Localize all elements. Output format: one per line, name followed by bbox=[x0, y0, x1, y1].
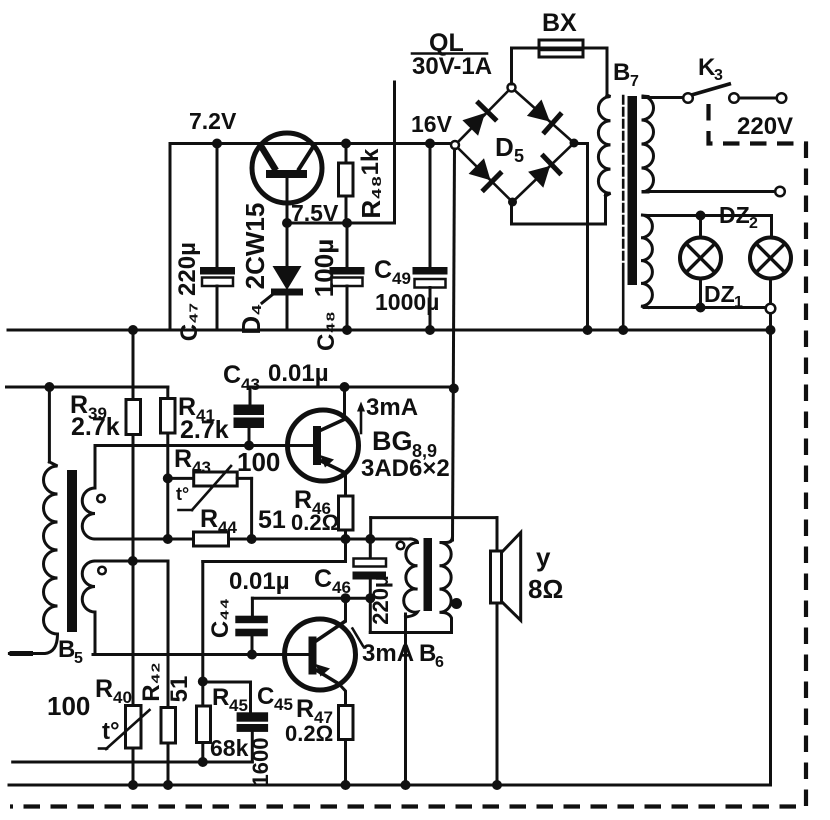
svg-text:0.01µ: 0.01µ bbox=[268, 360, 329, 387]
svg-text:45: 45 bbox=[229, 696, 248, 715]
svg-text:R₄₈: R₄₈ bbox=[356, 175, 386, 218]
svg-text:y: y bbox=[536, 542, 551, 572]
svg-text:0.2Ω: 0.2Ω bbox=[285, 721, 333, 746]
svg-text:3mA: 3mA bbox=[366, 394, 418, 421]
svg-text:D: D bbox=[495, 132, 514, 162]
svg-text:51: 51 bbox=[166, 676, 193, 703]
svg-text:7.2V: 7.2V bbox=[189, 108, 237, 134]
svg-text:R: R bbox=[174, 445, 192, 473]
svg-text:R: R bbox=[212, 684, 229, 711]
svg-text:C: C bbox=[374, 256, 392, 284]
svg-text:0.2Ω: 0.2Ω bbox=[291, 510, 339, 535]
svg-text:C: C bbox=[257, 683, 274, 710]
svg-text:B: B bbox=[613, 59, 630, 86]
svg-text:BX: BX bbox=[542, 9, 577, 37]
svg-text:0.01µ: 0.01µ bbox=[229, 568, 290, 595]
svg-text:220µ: 220µ bbox=[368, 575, 393, 624]
svg-text:DZ: DZ bbox=[704, 281, 735, 307]
svg-text:100: 100 bbox=[237, 447, 280, 477]
svg-text:6: 6 bbox=[435, 654, 444, 671]
svg-text:45: 45 bbox=[274, 695, 293, 714]
svg-text:B: B bbox=[419, 640, 436, 667]
svg-text:1: 1 bbox=[734, 294, 743, 311]
svg-text:46: 46 bbox=[332, 578, 351, 597]
svg-text:1k: 1k bbox=[357, 148, 384, 175]
svg-text:2.7k: 2.7k bbox=[71, 413, 120, 441]
svg-text:3mA: 3mA bbox=[362, 640, 414, 667]
svg-text:R: R bbox=[296, 695, 314, 723]
svg-text:3: 3 bbox=[714, 67, 723, 84]
svg-text:7.5V: 7.5V bbox=[291, 200, 339, 226]
svg-text:R: R bbox=[200, 505, 218, 533]
svg-text:100: 100 bbox=[47, 691, 90, 721]
svg-text:C₄₄: C₄₄ bbox=[207, 598, 234, 638]
svg-text:5: 5 bbox=[514, 146, 524, 166]
svg-text:8Ω: 8Ω bbox=[528, 574, 563, 604]
svg-text:49: 49 bbox=[392, 269, 411, 288]
svg-text:2CW15: 2CW15 bbox=[240, 203, 270, 290]
svg-text:16V: 16V bbox=[411, 111, 453, 137]
svg-text:C: C bbox=[314, 565, 332, 593]
svg-text:100µ: 100µ bbox=[309, 239, 339, 297]
svg-text:1600: 1600 bbox=[248, 738, 273, 787]
svg-text:43: 43 bbox=[192, 458, 211, 477]
svg-text:43: 43 bbox=[241, 375, 260, 394]
svg-text:C₄₈: C₄₈ bbox=[313, 311, 340, 351]
svg-text:1000µ: 1000µ bbox=[375, 289, 439, 315]
svg-text:40: 40 bbox=[113, 688, 132, 707]
svg-text:R: R bbox=[95, 675, 113, 703]
svg-text:2: 2 bbox=[749, 215, 758, 232]
svg-text:220V: 220V bbox=[737, 113, 793, 140]
svg-text:5: 5 bbox=[74, 650, 83, 667]
svg-text:220µ: 220µ bbox=[174, 242, 201, 296]
svg-text:2.7k: 2.7k bbox=[180, 416, 229, 444]
svg-text:BG: BG bbox=[372, 426, 413, 456]
svg-text:30V-1A: 30V-1A bbox=[412, 53, 492, 80]
svg-text:DZ: DZ bbox=[719, 202, 750, 228]
svg-text:C₄₇: C₄₇ bbox=[176, 303, 203, 341]
svg-text:R₄₂: R₄₂ bbox=[138, 662, 165, 701]
svg-text:51: 51 bbox=[258, 506, 286, 534]
svg-text:t°: t° bbox=[102, 718, 120, 745]
svg-text:7: 7 bbox=[630, 73, 639, 90]
svg-text:3AD6×2: 3AD6×2 bbox=[361, 455, 450, 482]
svg-text:B: B bbox=[58, 636, 75, 663]
svg-text:D₄: D₄ bbox=[236, 303, 266, 334]
svg-text:44: 44 bbox=[218, 518, 237, 537]
svg-text:68k: 68k bbox=[210, 735, 249, 761]
svg-text:C: C bbox=[223, 361, 241, 389]
svg-text:t°: t° bbox=[176, 484, 189, 504]
